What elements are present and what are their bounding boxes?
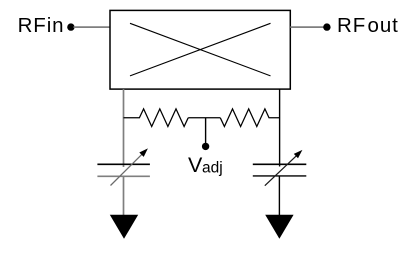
ground right xyxy=(265,215,293,239)
wire right vertical upper xyxy=(279,89,281,166)
wire RFin to box xyxy=(74,26,111,28)
resistor R2 xyxy=(220,109,279,127)
terminal dot RFin xyxy=(67,23,74,30)
wire left vertical upper xyxy=(123,89,125,167)
svg-text:adj: adj xyxy=(202,160,223,177)
filter block box U1 xyxy=(110,10,290,89)
variable capacitor C1 xyxy=(97,148,149,185)
ground left xyxy=(110,215,138,239)
crossed line 2 xyxy=(130,23,271,76)
wire Vadj stub xyxy=(205,118,207,144)
variable capacitor C2 xyxy=(253,150,306,186)
terminal dot RFout xyxy=(323,23,330,30)
junction dot Vadj xyxy=(202,143,209,150)
wire C1 to ground xyxy=(123,176,125,215)
wire box to RFout xyxy=(290,26,324,28)
wire between resistors xyxy=(188,117,220,119)
svg-text:RFin: RFin xyxy=(18,14,65,37)
wire C2 to ground xyxy=(278,176,280,216)
svg-text:V: V xyxy=(188,153,203,177)
svg-text:RFout: RFout xyxy=(337,14,399,37)
crossed line 1 xyxy=(130,23,271,76)
resistor R1 xyxy=(124,109,189,127)
